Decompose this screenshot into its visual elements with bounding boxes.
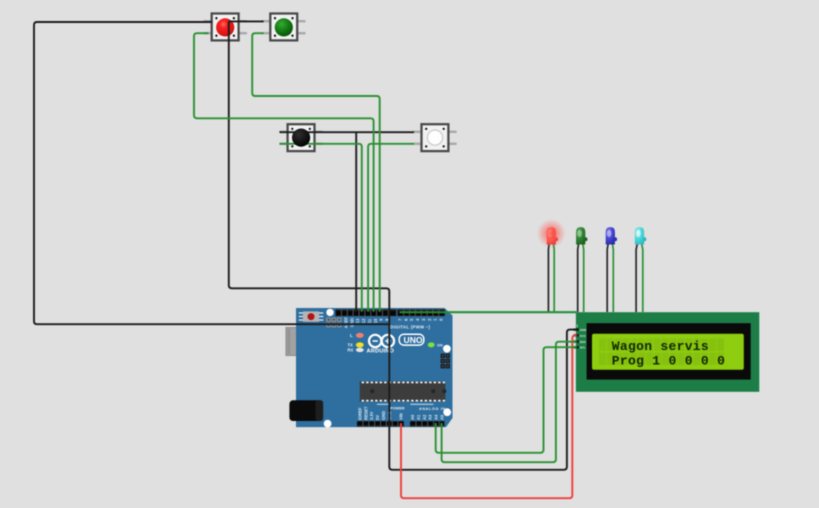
svg-text:A4: A4 <box>434 414 439 420</box>
svg-text:L: L <box>350 333 353 338</box>
svg-text:13: 13 <box>355 318 360 323</box>
pushbutton black <box>279 124 323 151</box>
wire black: black button / white button top leg rail <box>280 131 415 133</box>
wire red: Arduino 5V pin to LCD pin2 VCC <box>401 335 577 498</box>
wire green: white button bottom-left leg to Arduino digital pin <box>368 144 414 312</box>
svg-text:Wagon servis: Wagon servis <box>612 339 709 354</box>
wire black: red button top-left leg, left loop down to junction on Arduino column <box>34 22 389 324</box>
svg-text:11: 11 <box>367 318 372 323</box>
svg-text:A5: A5 <box>439 414 444 420</box>
wire green: black button bottom leg rail to Arduino digital pin <box>280 144 362 312</box>
digital header left (AREF..8) <box>335 309 396 316</box>
wire green: Arduino A4 to LCD pin4 SCL <box>436 347 577 453</box>
pushbutton red (start) <box>203 14 247 41</box>
LED D4 cyan <box>635 227 646 312</box>
svg-text:UNO: UNO <box>404 335 423 345</box>
LCD bezel <box>587 323 751 379</box>
power header <box>357 421 404 426</box>
svg-text:ARDUINO: ARDUINO <box>367 348 395 354</box>
digital pin labels left <box>344 317 390 329</box>
wire black: junction at red button down, across, down through Arduino, to LCD pin1 GND <box>229 21 577 469</box>
UNO label box <box>399 334 424 345</box>
svg-text:12: 12 <box>361 318 366 323</box>
analog header <box>410 421 445 426</box>
svg-text:VIN: VIN <box>399 413 404 420</box>
svg-text:Prog 1 0 0 0 0: Prog 1 0 0 0 0 <box>612 353 725 368</box>
barrel jack power connector <box>289 400 323 421</box>
svg-text:DIGITAL (PWM ~): DIGITAL (PWM ~) <box>390 325 431 330</box>
pushbutton green (stop) <box>262 14 306 41</box>
black button cap (drawn over green rail) <box>292 129 310 147</box>
USB connector <box>301 352 308 359</box>
wire green: red button bottom-left leg loop to Arduino digital pin <box>194 33 374 312</box>
Arduino UNO board U1 <box>286 308 453 428</box>
svg-text:SCL: SCL <box>580 346 586 350</box>
microcontroller IC ATmega328 <box>360 381 447 401</box>
svg-text:1: 1 <box>576 324 578 328</box>
wire black: red button right leg to green button left leg <box>229 20 264 22</box>
svg-text:GND: GND <box>381 411 386 420</box>
svg-text:POWER: POWER <box>390 407 405 411</box>
wire green: ground rail from Arduino right header to LCD (LED cathode rail), dark over header <box>400 311 446 313</box>
LED D1 red (lit) <box>537 219 566 312</box>
svg-text:GND: GND <box>580 328 588 332</box>
svg-text:GND: GND <box>349 318 354 327</box>
LCD pins GND VCC SDA SCL <box>574 328 579 348</box>
svg-text:A0: A0 <box>410 414 415 420</box>
ICSP header 2x3 <box>441 354 450 369</box>
svg-text:AREF: AREF <box>344 317 349 329</box>
mounting holes <box>326 309 333 316</box>
wire green: green button bottom-left leg loop to Arduino digital pin <box>252 33 380 312</box>
analog pin labels <box>410 414 444 420</box>
silkscreen lines under chip <box>377 403 433 405</box>
digital header right (7..0) <box>397 309 445 316</box>
svg-text:3.3V: 3.3V <box>369 411 374 420</box>
svg-text:5V: 5V <box>375 415 380 420</box>
digital pin labels right <box>398 318 444 321</box>
svg-text:10: 10 <box>373 318 378 323</box>
svg-text:RESET: RESET <box>363 406 368 420</box>
svg-text:RX: RX <box>348 348 354 353</box>
LCD screen <box>592 334 744 370</box>
pushbutton white <box>413 124 457 151</box>
svg-text:SDA: SDA <box>580 340 587 344</box>
LED D2 green <box>576 227 587 312</box>
svg-text:ON: ON <box>437 344 443 348</box>
svg-text:IOREF: IOREF <box>358 407 363 420</box>
LED D3 blue <box>606 227 617 312</box>
svg-text:ANALOG IN: ANALOG IN <box>419 407 446 411</box>
PCB outline <box>296 308 453 427</box>
LCD module LCD1 (I2C 16x2) <box>574 312 760 392</box>
svg-text:A1: A1 <box>416 414 421 420</box>
character cell shading rows <box>599 339 724 365</box>
wire green: Arduino A5 to LCD pin3 SDA <box>442 342 577 463</box>
svg-text:A3: A3 <box>428 414 433 420</box>
Arduino infinity logo <box>369 335 394 347</box>
power pin labels <box>358 406 404 420</box>
wire black: junction on top rail down to Arduino digital pin <box>355 132 357 312</box>
ICSP2 gray pin block <box>326 318 341 328</box>
ON LED green <box>428 342 435 347</box>
svg-text:VCC: VCC <box>580 334 587 338</box>
svg-text:A2: A2 <box>422 414 427 420</box>
reset button <box>299 311 324 321</box>
